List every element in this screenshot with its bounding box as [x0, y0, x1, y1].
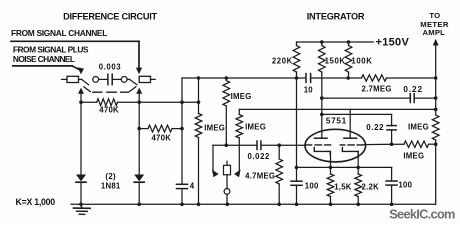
- svg-text:SeekIC.com: SeekIC.com: [389, 207, 455, 222]
- svg-text:IMEG: IMEG: [403, 151, 424, 160]
- svg-text:4.7MEG: 4.7MEG: [245, 172, 275, 181]
- svg-text:150K: 150K: [325, 57, 346, 66]
- svg-text:0.22: 0.22: [366, 123, 384, 132]
- svg-text:DIFFERENCE CIRCUIT: DIFFERENCE CIRCUIT: [63, 11, 157, 21]
- svg-text:IMEG: IMEG: [408, 123, 429, 132]
- svg-text:AMPL: AMPL: [423, 28, 446, 37]
- svg-text:2.7MEG: 2.7MEG: [362, 85, 392, 94]
- svg-text:10: 10: [304, 86, 314, 95]
- svg-text:1,5K: 1,5K: [334, 182, 352, 191]
- svg-text:INTEGRATOR: INTEGRATOR: [307, 11, 365, 21]
- svg-text:470K: 470K: [99, 106, 119, 115]
- svg-text:4: 4: [190, 181, 195, 190]
- svg-text:(2): (2): [105, 172, 116, 181]
- svg-text:0.22: 0.22: [403, 85, 423, 94]
- svg-text:0.022: 0.022: [247, 152, 270, 161]
- svg-text:FROM SIGNAL CHANNEL: FROM SIGNAL CHANNEL: [11, 28, 107, 38]
- svg-text:0.003: 0.003: [99, 63, 122, 72]
- svg-text:NOISE CHANNEL: NOISE CHANNEL: [13, 54, 75, 64]
- svg-text:220K: 220K: [272, 57, 293, 66]
- svg-text:K=X 1,000: K=X 1,000: [16, 197, 56, 207]
- svg-text:470K: 470K: [151, 134, 171, 143]
- svg-text:2.2K: 2.2K: [362, 182, 380, 191]
- svg-text:5751: 5751: [326, 116, 347, 125]
- svg-text:100: 100: [398, 181, 412, 190]
- svg-text:100: 100: [305, 182, 319, 191]
- svg-text:+150V: +150V: [376, 37, 410, 49]
- svg-text:IMEG: IMEG: [204, 123, 225, 132]
- svg-text:IMEG: IMEG: [231, 92, 252, 101]
- svg-text:IMEG: IMEG: [245, 122, 266, 131]
- svg-text:1N81: 1N81: [101, 181, 121, 190]
- svg-text:100K: 100K: [351, 57, 372, 66]
- svg-text:TO: TO: [429, 11, 440, 20]
